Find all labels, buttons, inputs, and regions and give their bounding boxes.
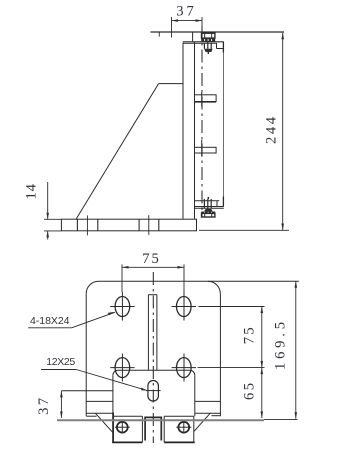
- left foot top edge: [114, 415, 142, 417]
- bolt B2 thread tip: [207, 197, 209, 199]
- svg-text:244: 244: [264, 116, 280, 144]
- profile right edge: [222, 53, 224, 197]
- base plate front edge low line right: [195, 412, 221, 414]
- clamp plate left edge: [112, 375, 114, 412]
- svg-text:14: 14: [24, 183, 40, 199]
- hole LL (18X24): [115, 358, 130, 378]
- label 12X25 leader arrowhead: [141, 388, 148, 391]
- center tongue top cap: [144, 416, 162, 418]
- top clamp lip line 1: [183, 41, 224, 43]
- dimension 37 (bottom) top arrow: [60, 391, 63, 398]
- oval slot crosshair horizontal: [146, 390, 161, 392]
- dimension 14 lower dim line: [47, 231, 49, 240]
- bottom clamp hook vertical: [222, 196, 224, 206]
- dimension 75/65 shared dim line: [261, 307, 263, 419]
- base plate front edge low line left: [86, 412, 113, 414]
- center slot right line: [156, 295, 158, 371]
- bolt B1 nut taper: [204, 49, 213, 52]
- view centerline (dash-dot): [152, 272, 154, 443]
- dimension 37 (bottom) bottom arrow: [60, 412, 63, 419]
- top clamp inner step vertical: [216, 43, 218, 48]
- gusset diagonal: [76, 84, 159, 220]
- svg-text:65: 65: [242, 383, 258, 400]
- svg-text:75: 75: [142, 251, 159, 267]
- label 4-18X24 leader underline: [28, 327, 72, 329]
- bottom clamp inner step vertical: [216, 201, 218, 207]
- hole UL crosshair horizontal: [110, 306, 134, 308]
- right foot hole circle: [178, 422, 189, 433]
- right foot inner edge: [163, 416, 165, 442]
- dimension 14 upper dim line: [47, 182, 49, 219]
- dimension 37 (top) left arrow: [172, 19, 179, 22]
- base plate hole H1 right edge: [97, 219, 99, 231]
- bolt B2 shank: [203, 199, 205, 208]
- bottom clamp lip line 2: [195, 207, 224, 209]
- hole UL crosshair vertical: [121, 292, 123, 321]
- dimension 169.5 bottom arrow: [295, 412, 298, 419]
- gusset top edge: [159, 83, 183, 85]
- right foot outer edge: [193, 416, 195, 442]
- bolt B1 head chamfer lines: [204, 33, 206, 38]
- dimension 37 (top) dim line: [172, 20, 203, 22]
- bolt B1 thread tip: [207, 52, 209, 54]
- right foot bottom edge: [164, 441, 195, 443]
- oval slot 12X25: [148, 381, 159, 402]
- hole LL crosshair horizontal: [110, 367, 134, 369]
- profile slot tab T1 center tick: [201, 92, 203, 106]
- dimension 75 (top) right extension line: [183, 264, 185, 292]
- clamp plate right edge: [194, 375, 196, 416]
- right small lip bottom: [211, 415, 220, 417]
- hole UR (18X24): [177, 297, 192, 317]
- bolt B2 hex head: [202, 213, 215, 217]
- base plate hole H1 left edge: [76, 219, 78, 231]
- label 12X25 leader diagonal: [76, 370, 146, 391]
- svg-text:75: 75: [242, 327, 258, 344]
- bolt B2 head chamfer lines: [204, 213, 206, 217]
- center slot top cap: [148, 294, 157, 296]
- dimension 65 bottom arrow: [261, 412, 264, 419]
- base plate front edge mid line left: [86, 400, 113, 402]
- base plate hole H2 left edge: [138, 219, 140, 231]
- dimension 75 (top) right arrow: [178, 266, 185, 269]
- dimension 14 lower arrow (up): [46, 231, 49, 238]
- svg-text:37: 37: [36, 398, 52, 415]
- left foot hole circle: [117, 422, 128, 433]
- dimension 244 dim line: [282, 33, 284, 230]
- center tongue right wall: [160, 417, 162, 440]
- dimension 37 (top) right arrow: [196, 19, 203, 22]
- center slot left line: [147, 295, 149, 371]
- front plate left edge: [85, 294, 87, 416]
- profile slot tab T1 bottom double line: [195, 101, 217, 103]
- svg-text:169.5: 169.5: [273, 322, 289, 370]
- bolt B1 hex head: [202, 33, 215, 38]
- dimension 169.5 dim line: [295, 281, 297, 419]
- bolt B2 serrated washer: [201, 212, 215, 214]
- right foot hole cross: [176, 426, 191, 428]
- bracket vertical plate left edge: [182, 43, 184, 219]
- svg-text:37: 37: [176, 4, 194, 20]
- bolt B1 shank: [203, 43, 205, 48]
- right gusset diagonal (front view): [194, 413, 211, 432]
- right foot top edge: [164, 415, 194, 417]
- base plate front edge top line left segment: [61, 390, 113, 392]
- left foot hole cross: [115, 426, 130, 428]
- svg-text:12X25: 12X25: [46, 356, 75, 368]
- dimension 37 (top) left extension line: [171, 17, 173, 38]
- dimension 75 (top) left arrow: [122, 266, 129, 269]
- base plate hole H2 right edge: [158, 219, 160, 231]
- hole LL crosshair vertical: [121, 354, 123, 382]
- top clamp lip line 2: [183, 42, 217, 44]
- dimension 14 upper extension line: [44, 218, 61, 220]
- hole UL (18X24): [115, 297, 130, 317]
- base plate outline (side view): [61, 219, 196, 231]
- left foot inner edge: [141, 416, 143, 442]
- center tongue left wall: [144, 417, 146, 440]
- dimension 14 lower extension line: [44, 230, 61, 232]
- profile slot tab T1: [195, 95, 217, 102]
- dimension 75/65 middle arrows: [261, 361, 264, 368]
- bolt B1 serrated washer: [201, 39, 215, 42]
- svg-text:4-18X24: 4-18X24: [30, 315, 70, 327]
- top flange end tick: [158, 32, 160, 37]
- front plate right edge: [219, 294, 221, 417]
- base plate front edge mid line right: [195, 400, 221, 402]
- top clamp hook vertical: [222, 42, 224, 53]
- bolt B2 nut taper: [204, 209, 213, 212]
- dimension 75 (top) left extension line: [121, 264, 123, 292]
- front plate top-right corner arc: [208, 281, 220, 293]
- dimension 244 bottom arrow: [281, 224, 284, 231]
- top clamp inner step horizontal: [217, 48, 224, 50]
- dimension 75 top arrow: [261, 307, 264, 314]
- left small lip bottom: [86, 415, 96, 417]
- dimension 14 upper arrow (down): [46, 213, 49, 220]
- left foot bottom edge: [112, 441, 142, 443]
- dimension 37 (bottom) dim line: [60, 391, 62, 418]
- profile slot tab T2: [195, 147, 217, 153]
- hole UR crosshair horizontal: [172, 306, 196, 308]
- hole LR crosshair vertical: [183, 354, 185, 382]
- front plate top-left corner arc: [86, 281, 98, 293]
- hole LR (18X24): [177, 358, 192, 378]
- label 12X25 leader underline: [41, 369, 76, 371]
- dimension 37 (top) right extension line: [201, 17, 203, 32]
- base plate hole H1 centerline: [86, 215, 88, 235]
- bottom clamp lip line 1: [195, 206, 224, 208]
- profile slot tab T2 center tick: [201, 140, 203, 157]
- dimension 244 top arrow: [281, 33, 284, 40]
- bracket vertical plate right edge: [194, 42, 196, 219]
- left gusset diagonal (front view): [95, 413, 112, 432]
- dimension 244 bottom extension line: [199, 229, 289, 231]
- front plate top edge (incl. 169.5 extension): [99, 280, 299, 282]
- hole LR extension to right dims: [198, 367, 265, 369]
- hole UR crosshair vertical: [183, 292, 185, 321]
- top flange line (also 244 extension): [151, 31, 285, 33]
- ground line (heavy): [57, 419, 264, 421]
- hole UR extension to right dims: [199, 306, 265, 308]
- dimension 169.5 top arrow: [295, 281, 298, 288]
- ground extension to 169.5 dim: [264, 418, 298, 420]
- dimension 75 (top) dim line: [122, 266, 184, 268]
- label 4-18X24 leader diagonal: [72, 312, 115, 328]
- left foot outer edge: [112, 412, 114, 442]
- bolt B1 centerline (dash-dot): [201, 26, 203, 217]
- clamp plate top edge with rounded corners: [113, 370, 195, 375]
- bottom clamp tab top line: [195, 200, 220, 202]
- flange fold vertical: [192, 32, 194, 42]
- base plate hole H2 centerline: [148, 215, 150, 235]
- hole LR crosshair horizontal: [172, 367, 196, 369]
